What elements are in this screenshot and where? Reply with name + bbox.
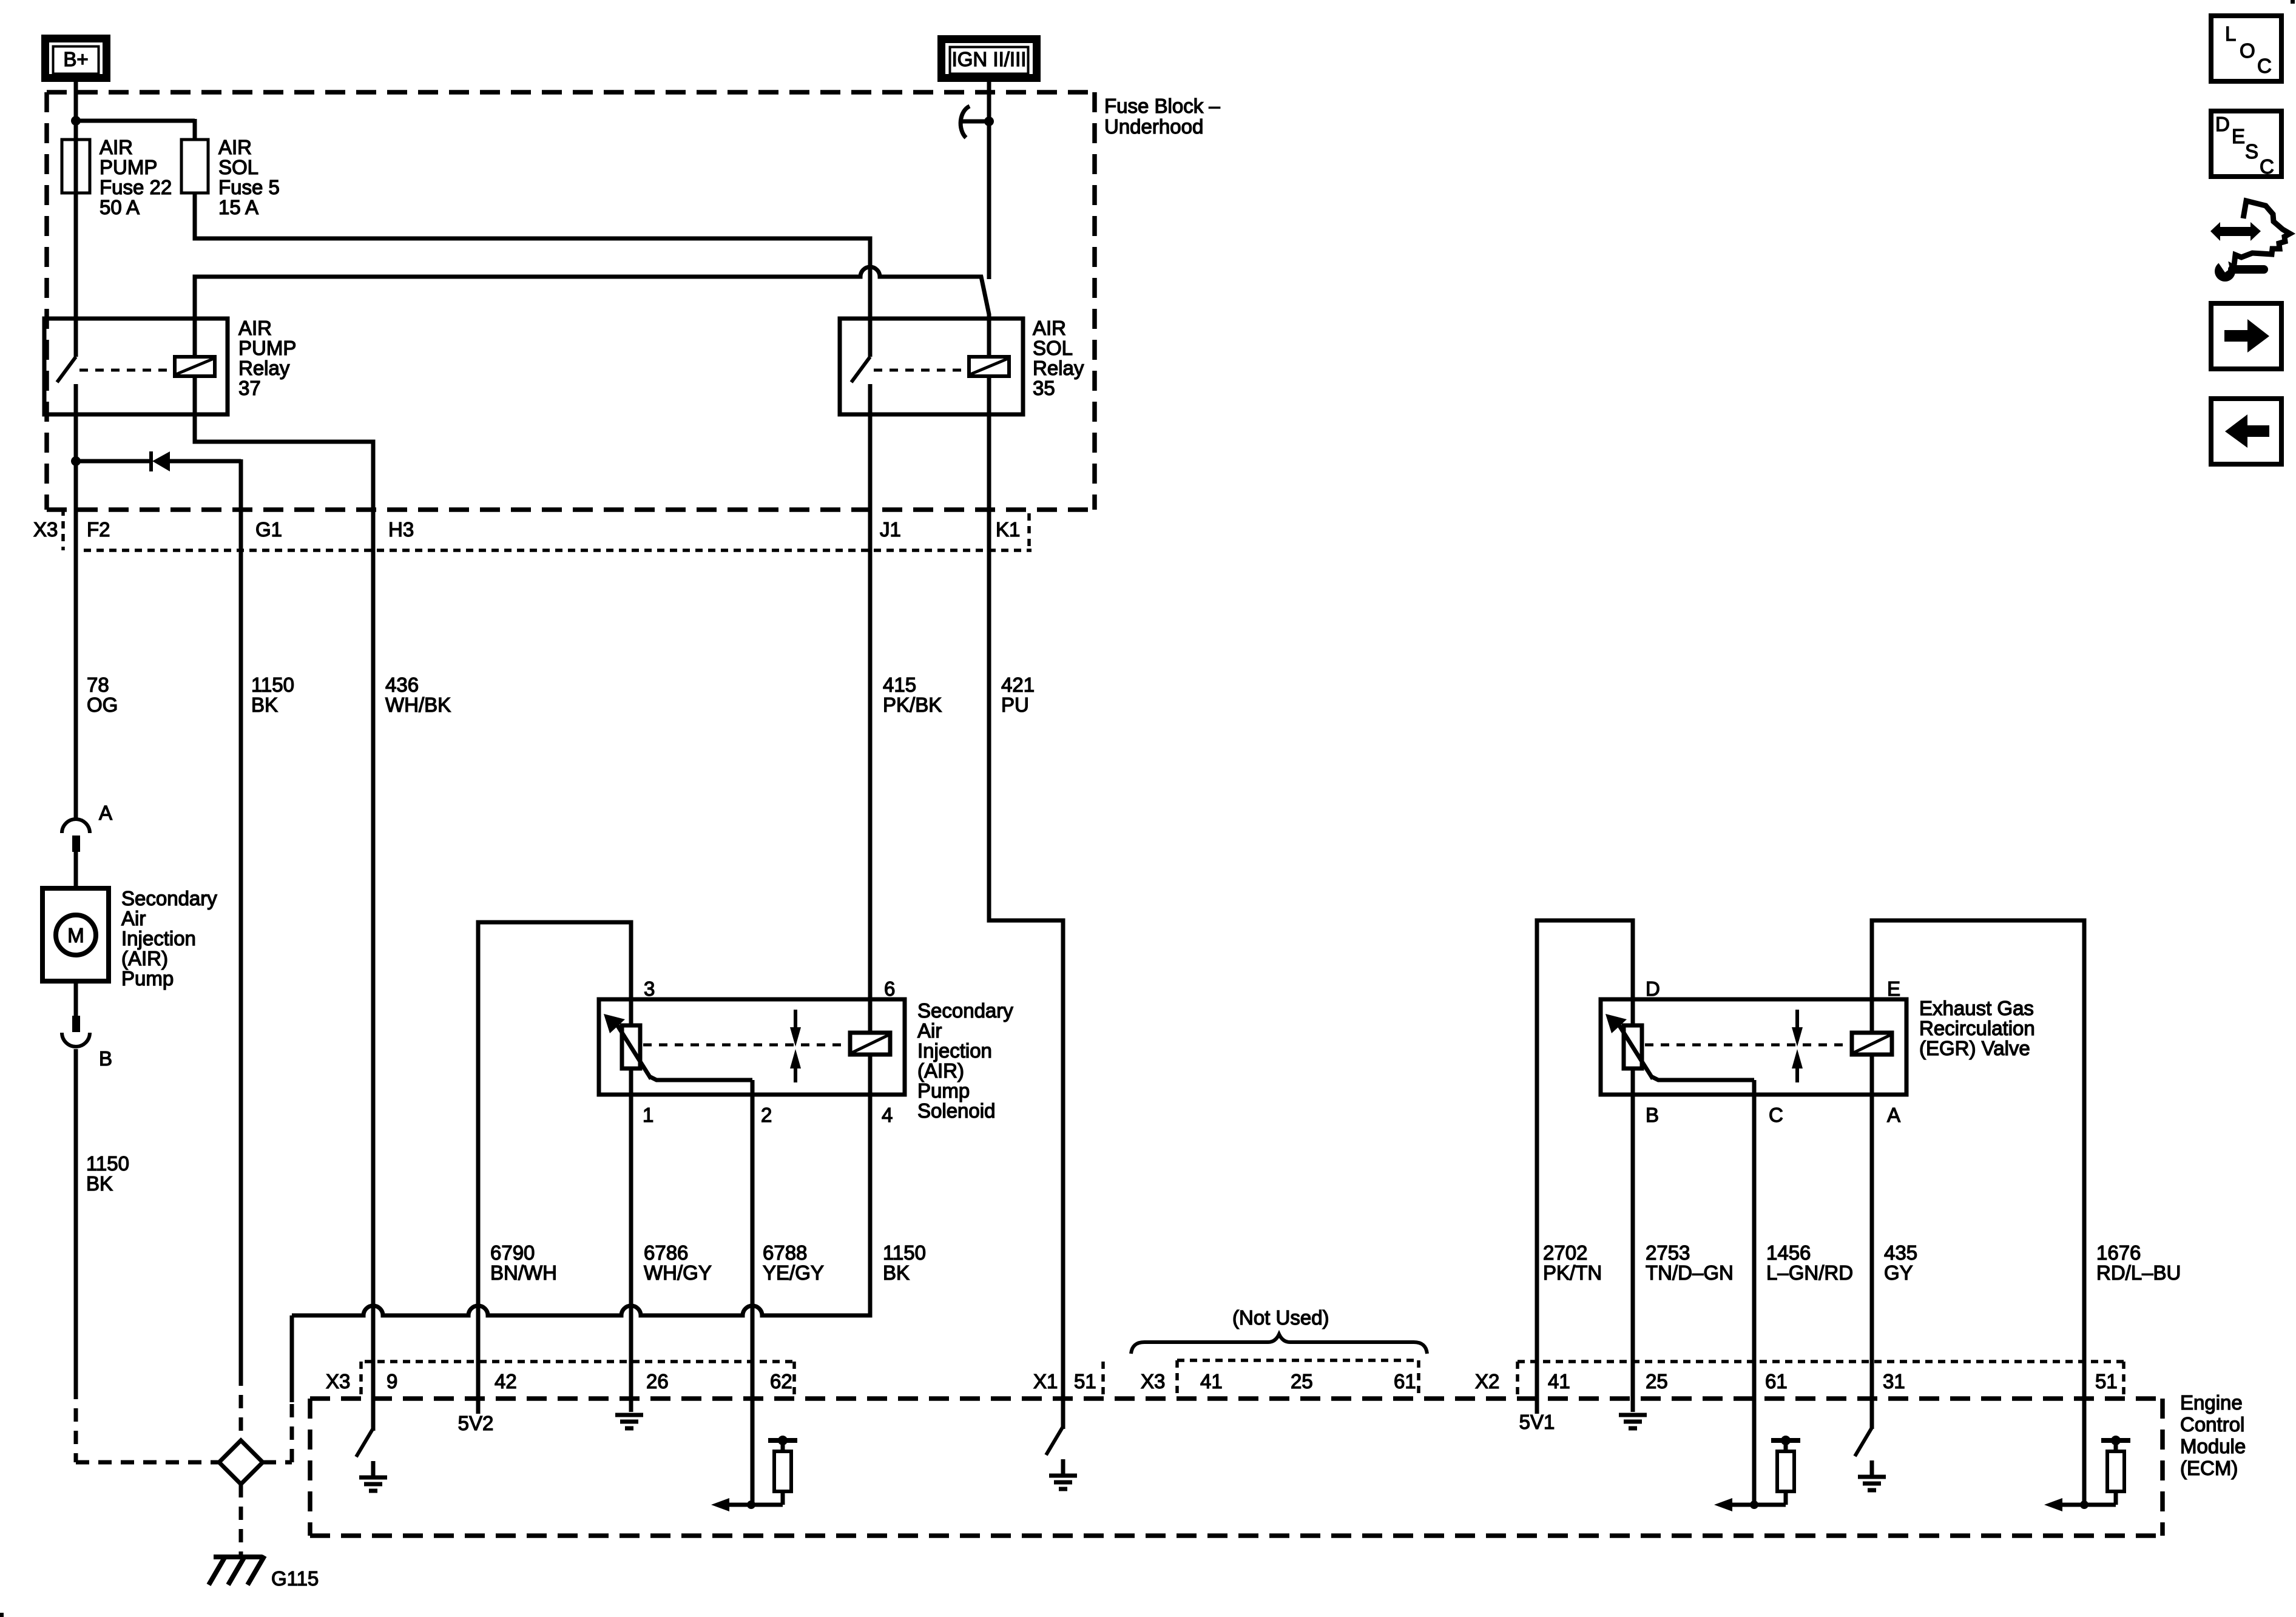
diagnostic icon double arrow: [2210, 222, 2261, 241]
internal dashed link: [643, 1044, 848, 1047]
svg-text:F2: F2: [87, 518, 110, 541]
dashed wire splice to ECM ground bus: [263, 1460, 292, 1465]
junction node: [71, 116, 81, 126]
IGN II/III power symbol: [942, 39, 1037, 78]
ECM X3 dotted line: [365, 1360, 794, 1363]
relay35 coil stubs: [987, 314, 991, 357]
svg-text:J1: J1: [880, 518, 901, 541]
EGR valve box: [1601, 999, 1906, 1095]
svg-text:35: 35: [1033, 377, 1055, 399]
wiper to pin2 link: [1651, 1076, 1754, 1080]
switch terminal stub: [74, 319, 78, 357]
ECM pin31 switch to ground: [1855, 1428, 1872, 1456]
internal supply bar: [768, 1438, 797, 1443]
svg-text:(Not Used): (Not Used): [1232, 1306, 1329, 1329]
svg-text:X3: X3: [1141, 1370, 1165, 1393]
drive arrow: [2060, 1503, 2084, 1507]
svg-text:1: 1: [643, 1104, 653, 1126]
svg-text:Control: Control: [2180, 1413, 2244, 1436]
svg-text:Injection: Injection: [121, 927, 196, 950]
junction node F2: [71, 456, 81, 466]
separator right of X1 51: [1101, 1362, 1105, 1399]
svg-text:PUMP: PUMP: [238, 337, 296, 359]
svg-text:3: 3: [644, 977, 655, 1000]
svg-text:41: 41: [1548, 1370, 1570, 1393]
svg-text:B: B: [99, 1047, 112, 1070]
svg-text:E: E: [1887, 977, 1900, 1000]
not used pins dotted box: [1177, 1359, 1419, 1362]
wire ECM41 to EGR pin D: [1537, 920, 1633, 1414]
solenoid coil: [1852, 1033, 1892, 1055]
svg-text:5V2: 5V2: [458, 1412, 494, 1434]
svg-text:G115: G115: [271, 1567, 319, 1590]
wire to fuse 5: [76, 119, 195, 123]
brace: [1131, 1334, 1427, 1354]
svg-text:YE/GY: YE/GY: [763, 1261, 824, 1284]
svg-text:X2: X2: [1475, 1370, 1499, 1393]
AIR pump solenoid box: [599, 999, 905, 1095]
svg-text:436: 436: [385, 673, 419, 696]
svg-text:Underhood: Underhood: [1104, 115, 1203, 138]
svg-text:Relay: Relay: [1033, 357, 1084, 379]
svg-text:A: A: [1887, 1104, 1900, 1126]
svg-text:2702: 2702: [1543, 1241, 1587, 1264]
svg-text:Fuse 22: Fuse 22: [100, 176, 172, 198]
svg-text:IGN II/III: IGN II/III: [952, 48, 1027, 70]
svg-text:PU: PU: [1001, 694, 1029, 716]
svg-text:Fuse Block –: Fuse Block –: [1104, 95, 1220, 117]
separator right of K1: [1027, 513, 1031, 550]
svg-text:K1: K1: [996, 518, 1020, 541]
dashed wire to splice: [74, 1386, 78, 1462]
Fuse Block - Underhood dashed box: [47, 90, 1095, 95]
svg-text:1456: 1456: [1766, 1241, 1811, 1264]
separator X3/9: [359, 1362, 363, 1399]
svg-text:Solenoid: Solenoid: [917, 1099, 995, 1122]
wire diode to G1: [239, 459, 243, 1372]
svg-text:C: C: [1769, 1104, 1783, 1126]
svg-text:1150: 1150: [251, 673, 294, 696]
svg-text:PK/BK: PK/BK: [883, 694, 942, 716]
svg-text:Fuse 5: Fuse 5: [218, 176, 280, 198]
page artifact top right: [2291, 0, 2295, 4]
wire A to pump: [74, 852, 78, 886]
svg-text:AIR: AIR: [218, 136, 252, 158]
svg-text:M: M: [67, 924, 84, 947]
diagnostic icon component outline: [2234, 201, 2290, 265]
sensor wiper arrow: [616, 1023, 651, 1079]
EGR pin E stub: [1870, 999, 1874, 1033]
AIR pump box: [42, 888, 109, 981]
wiper to pin2 link: [649, 1076, 752, 1080]
svg-text:61: 61: [1394, 1370, 1416, 1393]
wire relay37 switch to F2: [74, 414, 78, 463]
svg-text:L: L: [2225, 22, 2236, 45]
motor circle: [56, 915, 96, 955]
wire: [751, 1503, 783, 1507]
svg-text:5V1: 5V1: [1519, 1411, 1555, 1433]
svg-text:1150: 1150: [883, 1241, 926, 1264]
svg-text:(EGR) Valve: (EGR) Valve: [1919, 1037, 2030, 1059]
page artifact bottom left: [0, 1613, 4, 1617]
svg-text:X1: X1: [1033, 1370, 1058, 1393]
relay box: [44, 319, 228, 414]
svg-text:2: 2: [761, 1104, 772, 1126]
svg-text:51: 51: [1074, 1370, 1096, 1393]
svg-text:2753: 2753: [1646, 1241, 1690, 1264]
svg-text:1150: 1150: [86, 1152, 129, 1175]
svg-text:D: D: [1646, 977, 1660, 1000]
svg-text:6790: 6790: [490, 1241, 535, 1264]
fuse 22 AIR PUMP: [62, 140, 90, 193]
svg-text:Air: Air: [121, 907, 146, 930]
switch bottom stub: [74, 384, 78, 414]
Engine Control Module dashed box: [310, 1396, 2163, 1401]
svg-text:WH/BK: WH/BK: [385, 694, 451, 716]
svg-text:BK: BK: [86, 1172, 113, 1195]
svg-text:Pump: Pump: [121, 967, 174, 990]
switch arm: [851, 357, 870, 382]
svg-text:AIR: AIR: [238, 317, 272, 339]
solenoid pin 6 stub: [868, 999, 873, 1033]
svg-text:6786: 6786: [644, 1241, 688, 1264]
svg-text:50 A: 50 A: [100, 196, 140, 218]
resistor: [774, 1451, 791, 1491]
wire pin C to ECM 61: [1752, 1080, 1757, 1505]
svg-text:37: 37: [238, 377, 261, 399]
svg-text:415: 415: [883, 673, 916, 696]
internal supply bar: [2101, 1438, 2130, 1443]
svg-text:G1: G1: [255, 518, 282, 541]
svg-text:AIR: AIR: [1033, 317, 1066, 339]
junction dot: [747, 1501, 755, 1509]
svg-text:6: 6: [884, 977, 895, 1000]
wire pin1 to ECM 26: [629, 1068, 633, 1412]
wire pin2 to ECM 62: [751, 1080, 755, 1505]
ECM pin25 ground: [1619, 1413, 1647, 1417]
svg-text:B: B: [1646, 1104, 1659, 1126]
right arrow icon: [2211, 303, 2281, 369]
switch bottom stub: [868, 384, 873, 414]
svg-text:GY: GY: [1884, 1261, 1913, 1284]
relay internal dashed link: [79, 369, 173, 372]
svg-text:RD/L–BU: RD/L–BU: [2096, 1261, 2181, 1284]
svg-text:421: 421: [1001, 673, 1035, 696]
svg-text:62: 62: [770, 1370, 792, 1393]
fuse 5 AIR SOL: [181, 140, 208, 193]
wire pin4 to ground bus with hops: [292, 1055, 870, 1315]
svg-text:WH/GY: WH/GY: [644, 1261, 712, 1284]
svg-text:51: 51: [2095, 1370, 2118, 1393]
dashed wire splice to ground: [239, 1484, 243, 1555]
DESC icon: [2211, 111, 2281, 177]
svg-text:E: E: [2232, 125, 2245, 147]
svg-text:Engine: Engine: [2180, 1391, 2243, 1414]
svg-text:435: 435: [1884, 1241, 1917, 1264]
dashed wire G1 to splice: [239, 1372, 243, 1440]
ECM X1-51 switch to ground: [1046, 1426, 1063, 1455]
svg-text:1676: 1676: [2096, 1241, 2141, 1264]
svg-text:A: A: [99, 802, 112, 824]
G115 chassis ground: [214, 1555, 262, 1559]
svg-text:D: D: [2215, 113, 2230, 135]
ECM pin26 ground: [615, 1413, 643, 1417]
svg-text:4: 4: [882, 1104, 893, 1126]
svg-text:25: 25: [1291, 1370, 1313, 1393]
svg-text:42: 42: [495, 1370, 517, 1393]
svg-text:Relay: Relay: [238, 357, 290, 379]
B+ power symbol: [46, 39, 107, 78]
internal dashed link: [1645, 1044, 1850, 1047]
svg-text:SOL: SOL: [1033, 337, 1073, 359]
position sensor resistor: [1624, 1025, 1642, 1068]
svg-text:BN/WH: BN/WH: [490, 1261, 557, 1284]
junction dot: [1750, 1501, 1758, 1509]
svg-text:SOL: SOL: [218, 156, 258, 178]
wire relay37 coil to H3: [195, 414, 373, 1431]
separator right end X2: [2122, 1362, 2125, 1399]
svg-text:Recirculation: Recirculation: [1919, 1017, 2035, 1039]
sensor wiper arrow: [1618, 1023, 1653, 1079]
svg-text:Secondary: Secondary: [121, 887, 217, 910]
svg-text:Air: Air: [917, 1019, 942, 1042]
switch arm: [57, 357, 76, 382]
svg-text:Module: Module: [2180, 1435, 2246, 1457]
wire pump to B: [74, 984, 78, 1017]
position sensor resistor: [622, 1025, 640, 1068]
drive arrow: [1730, 1503, 1754, 1507]
svg-text:OG: OG: [87, 694, 118, 716]
relay coil: [175, 357, 215, 376]
splice diamond: [219, 1440, 263, 1484]
connector B symbol: [72, 1016, 80, 1032]
svg-text:O: O: [2240, 39, 2255, 62]
left arrow icon: [2211, 399, 2281, 464]
separator right of 62: [792, 1362, 796, 1399]
svg-text:X3: X3: [33, 518, 58, 541]
svg-text:X3: X3: [326, 1370, 350, 1393]
svg-text:PK/TN: PK/TN: [1543, 1261, 1602, 1284]
wire EGR pin E to ECM 51: [1872, 920, 2084, 1505]
svg-text:61: 61: [1765, 1370, 1788, 1393]
switch terminal stub: [868, 319, 873, 357]
svg-text:S: S: [2245, 140, 2258, 163]
wire IGN down: [987, 82, 991, 279]
wire B+ down: [74, 82, 78, 123]
wire: [2084, 1503, 2116, 1507]
wire solenoid pin3 to ECM 42: [478, 922, 631, 1414]
separator X3/F2: [61, 508, 65, 550]
svg-text:BK: BK: [883, 1261, 910, 1284]
solenoid coil: [850, 1033, 890, 1055]
svg-text:78: 78: [87, 673, 109, 696]
svg-text:6788: 6788: [763, 1241, 807, 1264]
svg-text:L–GN/RD: L–GN/RD: [1766, 1261, 1853, 1284]
resistor: [1777, 1451, 1794, 1491]
connector A symbol: [62, 819, 90, 833]
svg-text:15 A: 15 A: [218, 196, 258, 218]
ECM X2 dotted line: [1518, 1360, 2124, 1363]
wire B down: [74, 1049, 78, 1386]
svg-text:C: C: [2257, 55, 2272, 77]
ECM pin9 switch to ground: [356, 1428, 373, 1457]
connector row dotted line: [84, 549, 1032, 552]
wire pin A to ECM 31: [1870, 1055, 1874, 1429]
svg-text:C: C: [2260, 155, 2274, 178]
diode: [76, 459, 150, 464]
LOC icon: [2211, 16, 2281, 81]
fusible element symbol: [961, 106, 970, 138]
svg-text:(AIR): (AIR): [917, 1059, 964, 1082]
junction dot: [2080, 1501, 2088, 1509]
svg-text:26: 26: [646, 1370, 669, 1393]
wire F2 down: [74, 461, 78, 820]
valve pintle arrows: [794, 1010, 797, 1031]
svg-text:Injection: Injection: [917, 1039, 992, 1062]
svg-text:41: 41: [1200, 1370, 1223, 1393]
relay box: [840, 319, 1023, 414]
svg-text:TN/D–GN: TN/D–GN: [1646, 1261, 1734, 1284]
wire relay35 coil to K1: [989, 414, 1063, 1429]
valve pintle arrows: [1795, 1010, 1799, 1031]
separator X2/41: [1516, 1362, 1519, 1399]
svg-text:Pump: Pump: [917, 1079, 970, 1102]
svg-text:(ECM): (ECM): [2180, 1457, 2238, 1479]
svg-text:Exhaust Gas: Exhaust Gas: [1919, 997, 2034, 1019]
diagnostic icon wrench: [2215, 261, 2235, 282]
relay37 coil stubs: [193, 277, 197, 357]
svg-text:B+: B+: [63, 48, 88, 70]
internal supply bar: [1771, 1438, 1800, 1443]
resistor: [2107, 1451, 2124, 1491]
relay coil: [969, 357, 1009, 376]
svg-text:9: 9: [387, 1370, 397, 1393]
wire ign to relay coils with hop: [195, 267, 989, 319]
wire pin B to ECM 25: [1631, 1068, 1635, 1412]
svg-text:25: 25: [1646, 1370, 1668, 1393]
wire: [1754, 1503, 1786, 1507]
svg-text:Secondary: Secondary: [917, 999, 1013, 1022]
wire B+ to fuse 22: [74, 121, 78, 319]
ground bus riser: [290, 1315, 294, 1402]
wire fuse5 to relay35 switch: [195, 193, 870, 319]
relay internal dashed link: [874, 369, 967, 372]
svg-text:(AIR): (AIR): [121, 947, 168, 970]
svg-text:BK: BK: [251, 694, 278, 716]
svg-text:31: 31: [1883, 1370, 1905, 1393]
drive arrow: [727, 1503, 751, 1507]
svg-text:PUMP: PUMP: [100, 156, 157, 178]
svg-text:AIR: AIR: [100, 136, 133, 158]
wire relay35 switch to J1 / solenoid pin 6: [868, 414, 873, 999]
svg-text:H3: H3: [388, 518, 414, 541]
